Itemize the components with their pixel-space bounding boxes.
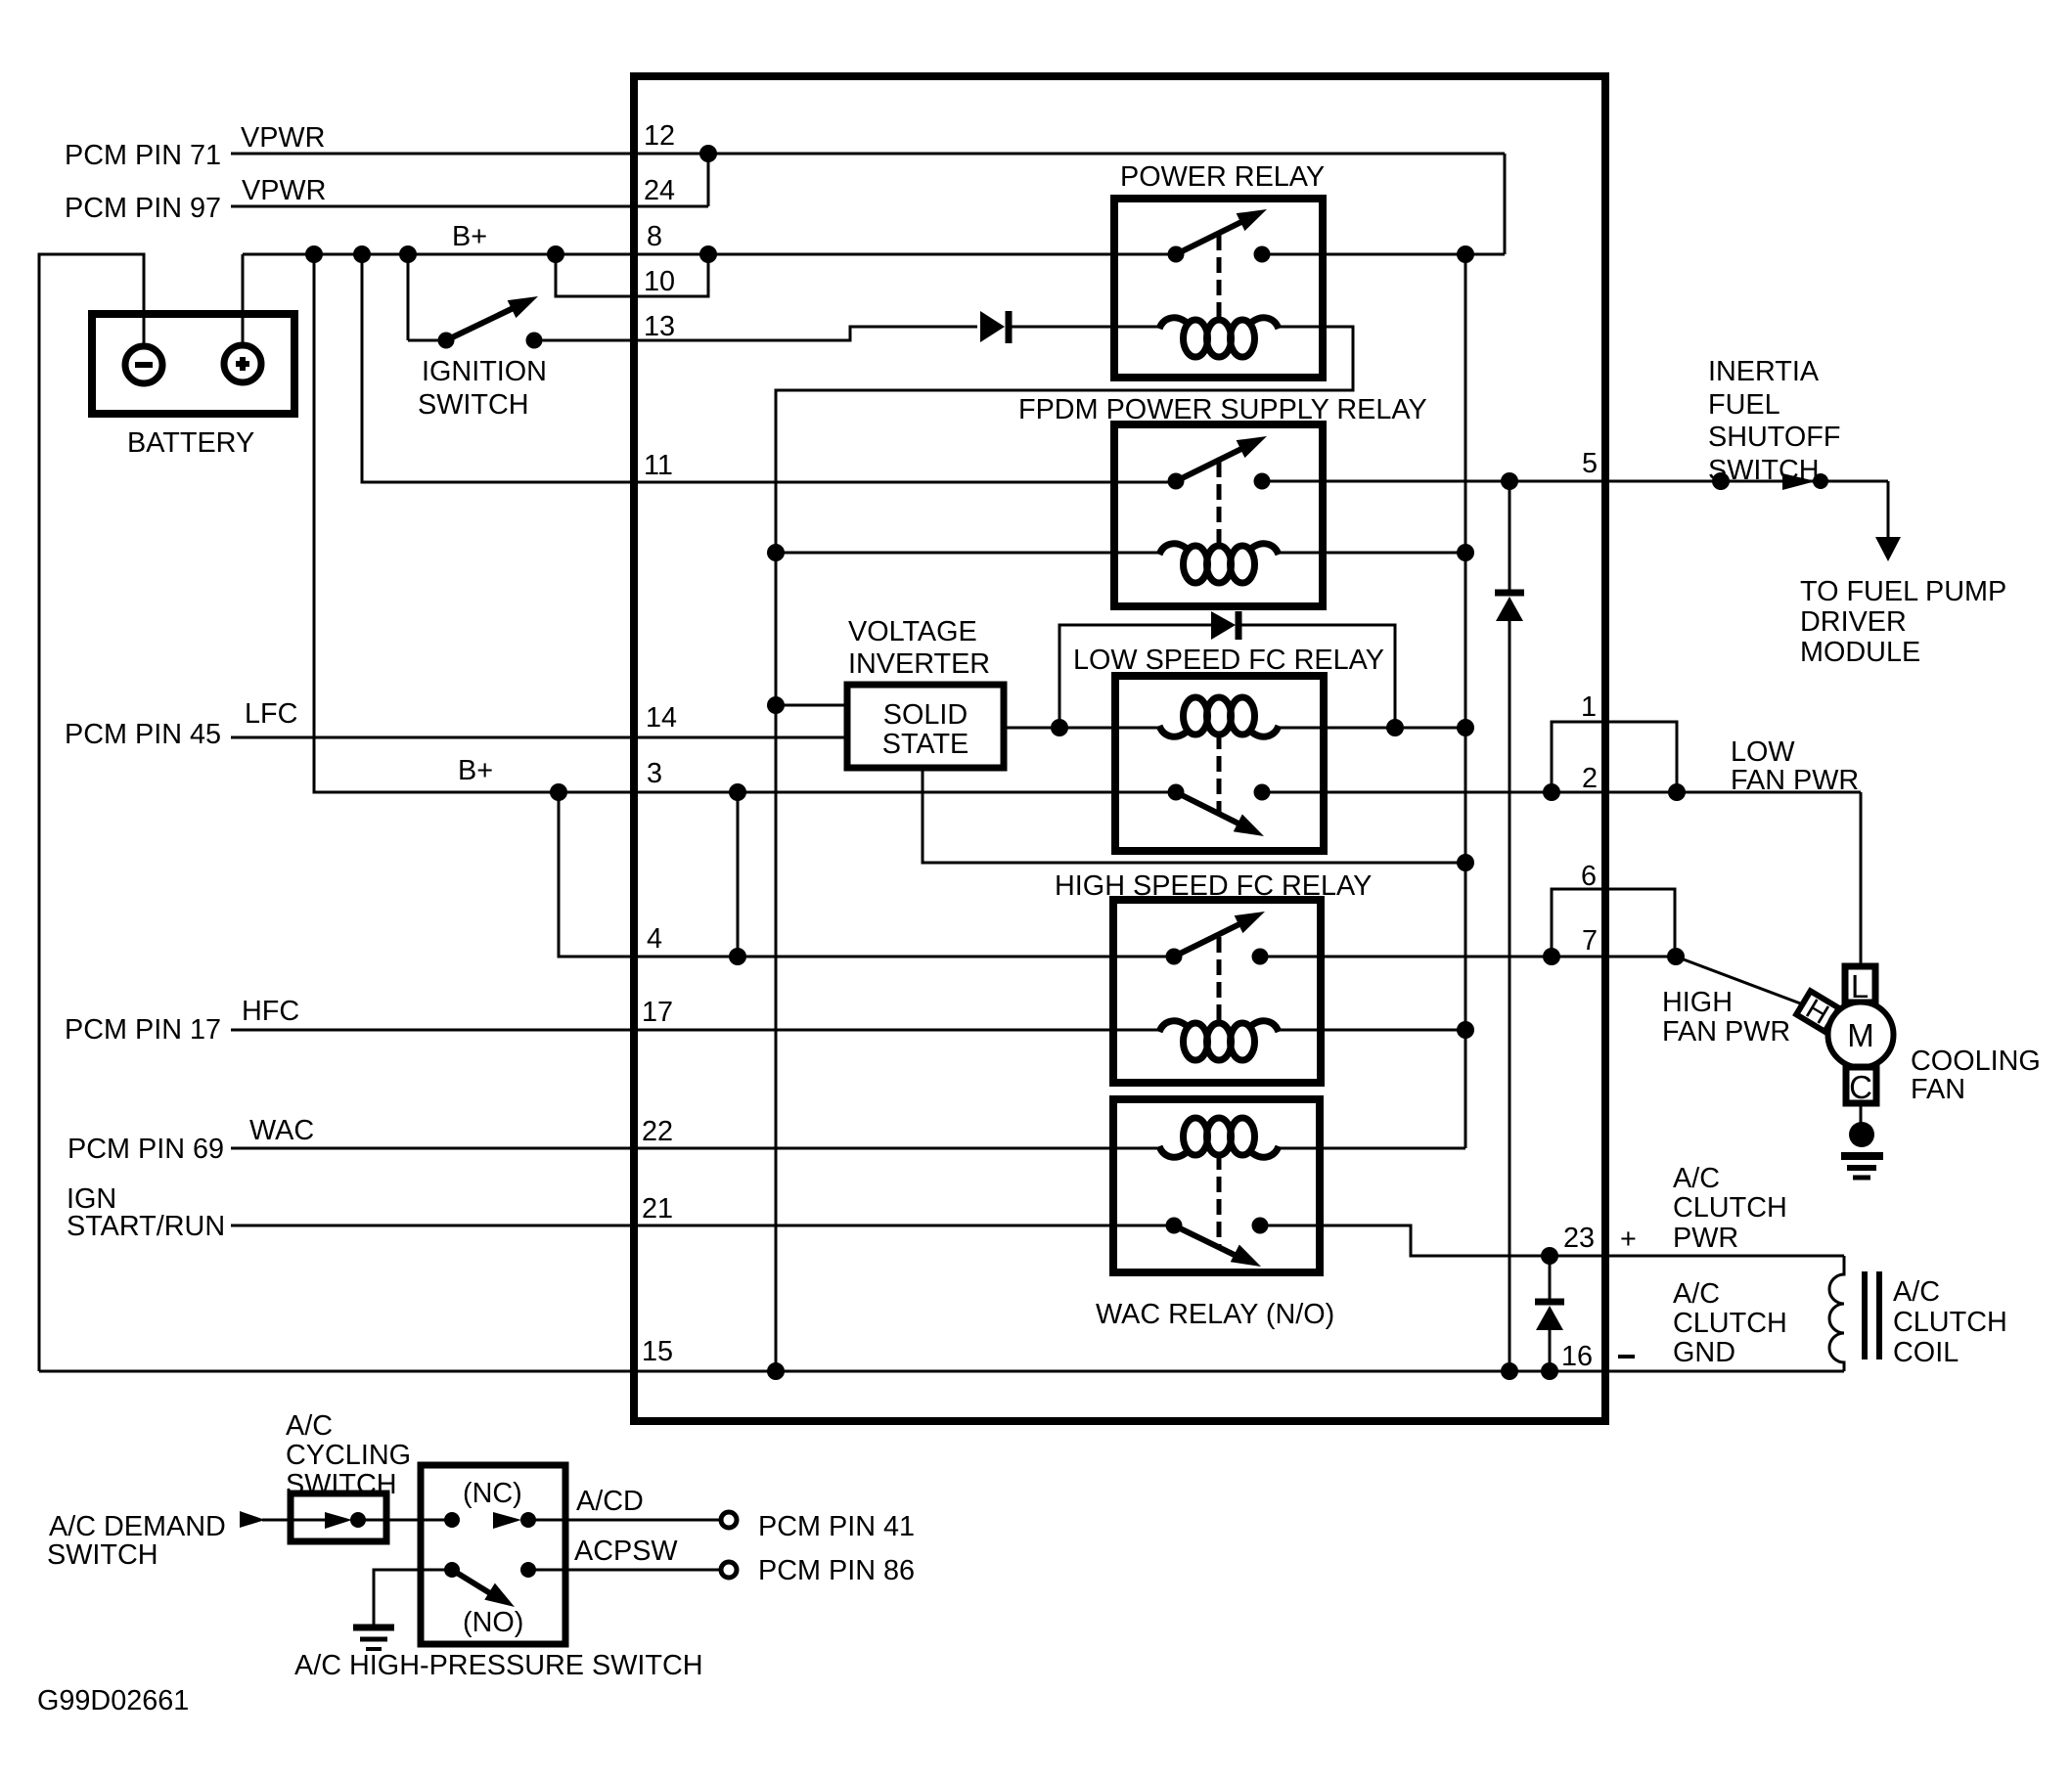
svg-text:SOLID: SOLID xyxy=(883,699,968,731)
svg-text:GND: GND xyxy=(1673,1337,1735,1368)
node bypass diode left xyxy=(1051,719,1068,736)
svg-text:SWITCH: SWITCH xyxy=(47,1539,158,1571)
svg-text:7: 7 xyxy=(1582,925,1598,957)
wire solid state output to LS coil xyxy=(1004,727,1161,730)
wire pin 3 to pin 4 jumper b xyxy=(737,792,740,957)
wire power relay coil return xyxy=(776,327,1353,1371)
wire diagonal to fan H xyxy=(1676,957,1803,1004)
svg-text:21: 21 xyxy=(642,1193,673,1225)
svg-text:5: 5 xyxy=(1582,448,1598,479)
svg-text:12: 12 xyxy=(644,120,675,152)
power relay coil xyxy=(1159,318,1186,329)
node ground bus solid state vertical xyxy=(767,1362,785,1380)
terminal ring PCM PIN 41 xyxy=(721,1512,737,1528)
WAC relay U5 xyxy=(1113,1099,1320,1272)
svg-text:A/C: A/C xyxy=(1673,1163,1720,1194)
terminal ring PCM PIN 86 xyxy=(721,1562,737,1578)
wire PCM PIN 69 WAC to pin 22 xyxy=(231,1147,1117,1150)
LS dashed actuator xyxy=(1217,734,1222,815)
wire pin 1-2 jumper xyxy=(1552,722,1677,792)
power relay contacts xyxy=(1168,246,1185,263)
svg-text:16: 16 xyxy=(1561,1341,1593,1372)
node pin3 branch a xyxy=(550,783,567,801)
node ground bus clutch diode xyxy=(1541,1362,1558,1380)
wire demand to cycling switch xyxy=(262,1519,325,1522)
A/C cycling switch S3 box xyxy=(291,1493,386,1541)
svg-text:+: + xyxy=(1620,1224,1637,1255)
FPDM arm xyxy=(1176,444,1251,481)
svg-text:WAC: WAC xyxy=(249,1115,314,1146)
svg-text:LFC: LFC xyxy=(245,698,297,730)
A/C demand arrow xyxy=(240,1511,265,1528)
node B+ branch 4 xyxy=(547,245,564,263)
cooling fan terminal L xyxy=(1845,966,1875,1002)
LS contacts xyxy=(1168,784,1185,801)
svg-text:A/C DEMAND: A/C DEMAND xyxy=(49,1511,226,1542)
svg-text:HFC: HFC xyxy=(242,996,299,1027)
NC contacts xyxy=(444,1512,460,1528)
wire pin 7 high fan pwr xyxy=(1260,956,1676,958)
node bypass diode right xyxy=(1386,719,1404,736)
low speed FC relay U3 xyxy=(1115,676,1324,851)
wire pin 15 16 ground bus xyxy=(39,1370,1844,1373)
svg-text:15: 15 xyxy=(642,1336,673,1367)
wire PCM PIN 17 HFC xyxy=(231,1029,1117,1032)
svg-text:10: 10 xyxy=(644,266,675,297)
svg-text:17: 17 xyxy=(642,997,673,1028)
ignition switch S1 arm xyxy=(446,304,521,340)
wire PCM PIN 97 VPWR to pin 24 xyxy=(231,205,708,208)
wire pin 2 low fan pwr xyxy=(1262,791,1861,794)
svg-text:IGNITION: IGNITION xyxy=(422,356,547,387)
svg-text:23: 23 xyxy=(1563,1223,1595,1254)
cooling fan terminal C xyxy=(1846,1067,1876,1103)
HS dashed actuator xyxy=(1217,937,1222,1025)
svg-text:TO FUEL PUMP: TO FUEL PUMP xyxy=(1800,576,2006,607)
node lower output to feed vertical xyxy=(1457,854,1474,871)
wire cycling to high pressure switch xyxy=(358,1519,452,1522)
svg-text:FAN PWR: FAN PWR xyxy=(1731,765,1859,796)
svg-text:2: 2 xyxy=(1582,763,1598,794)
battery BT1 xyxy=(92,314,294,414)
svg-text:PCM PIN 71: PCM PIN 71 xyxy=(65,140,221,171)
ignition switch arm arrowhead xyxy=(508,288,543,318)
wire power relay output to VPWR xyxy=(1262,253,1505,256)
power relay U1 xyxy=(1114,199,1323,378)
svg-text:INVERTER: INVERTER xyxy=(848,648,990,680)
voltage inverter solid state box U6 xyxy=(847,685,1004,768)
svg-text:3: 3 xyxy=(647,758,662,789)
WAC coil xyxy=(1117,1147,1161,1150)
diode D1 on pin 13 wire xyxy=(980,311,1005,342)
wire PCM PIN 71 VPWR to pin 12 xyxy=(231,153,1505,156)
svg-text:6: 6 xyxy=(1581,861,1597,892)
svg-text:WAC RELAY (N/O): WAC RELAY (N/O) xyxy=(1096,1299,1334,1330)
svg-text:VPWR: VPWR xyxy=(241,122,325,154)
svg-text:COOLING: COOLING xyxy=(1911,1046,2041,1077)
svg-text:PCM PIN 69: PCM PIN 69 xyxy=(68,1134,224,1165)
svg-text:A/C: A/C xyxy=(1893,1276,1940,1308)
wire pin 12-24 jumper xyxy=(707,154,710,206)
node ground bus FPDM diode xyxy=(1501,1362,1518,1380)
svg-text:CLUTCH: CLUTCH xyxy=(1673,1192,1787,1224)
svg-text:C: C xyxy=(1849,1069,1872,1105)
svg-text:VPWR: VPWR xyxy=(242,175,326,206)
svg-text:B+: B+ xyxy=(458,755,493,786)
cooling fan motor M1 xyxy=(1828,1002,1894,1068)
wire solid state lower output xyxy=(923,768,1465,863)
node B+ branch 2 xyxy=(353,245,371,263)
NO contacts xyxy=(444,1562,460,1578)
svg-text:(NO): (NO) xyxy=(463,1607,523,1638)
svg-text:BATTERY: BATTERY xyxy=(127,427,254,459)
wire pin 5 inertia feed xyxy=(1262,480,1888,483)
svg-text:SWITCH: SWITCH xyxy=(418,389,529,421)
svg-text:1: 1 xyxy=(1581,691,1597,723)
node solid state upper input xyxy=(767,696,785,714)
wire B+ down to pin 3 xyxy=(314,254,1176,792)
svg-text:PWR: PWR xyxy=(1673,1223,1738,1254)
node B+ branch 3 xyxy=(399,245,417,263)
wire B+ bus / pin 8 xyxy=(243,253,1176,256)
PCM module box xyxy=(634,76,1605,1421)
high speed FC relay U4 xyxy=(1113,900,1321,1083)
WAC contacts xyxy=(1166,1218,1183,1234)
node power relay output xyxy=(1457,245,1474,263)
svg-text:14: 14 xyxy=(646,702,677,734)
node pin7 a xyxy=(1543,948,1560,965)
HS contacts xyxy=(1166,949,1183,965)
svg-text:FAN PWR: FAN PWR xyxy=(1662,1016,1790,1047)
diode D4 A/C clutch clamp xyxy=(1549,1256,1552,1302)
svg-text:LOW: LOW xyxy=(1731,736,1795,768)
svg-text:A/C HIGH-PRESSURE SWITCH: A/C HIGH-PRESSURE SWITCH xyxy=(294,1650,703,1681)
svg-text:A/CD: A/CD xyxy=(576,1486,644,1517)
svg-text:VOLTAGE: VOLTAGE xyxy=(848,616,977,647)
svg-text:COIL: COIL xyxy=(1893,1337,1959,1368)
svg-text:22: 22 xyxy=(642,1116,673,1147)
power relay arm xyxy=(1176,217,1251,254)
svg-text:4: 4 xyxy=(647,923,662,955)
node pin 12 xyxy=(699,145,717,162)
node B+ branch 1 xyxy=(305,245,323,263)
wire pin 6-7 jumper xyxy=(1552,889,1675,957)
svg-text:A/C: A/C xyxy=(1673,1278,1720,1310)
wire WAC coil right to feed vertical xyxy=(1277,1147,1465,1150)
node pin5 diode branch xyxy=(1501,472,1518,490)
diode D2 FPDM clamp vertical xyxy=(1509,481,1511,593)
inertia fuel shutoff switch S2 xyxy=(1712,472,1730,490)
A/C high-pressure switch S4 box xyxy=(421,1465,565,1644)
label minus xyxy=(1618,1355,1635,1359)
svg-text:PCM PIN 17: PCM PIN 17 xyxy=(65,1014,221,1046)
node LS coil right xyxy=(1457,719,1474,736)
diode D3 low speed coil bypass xyxy=(1059,625,1212,728)
wire B+ down to pin 11 xyxy=(362,254,1176,482)
svg-text:FUEL: FUEL xyxy=(1708,389,1780,421)
svg-text:DRIVER: DRIVER xyxy=(1800,606,1907,638)
svg-text:8: 8 xyxy=(647,221,662,252)
wire B+ down to ignition switch xyxy=(407,254,410,340)
node HS coil right xyxy=(1457,1021,1474,1039)
svg-text:HIGH: HIGH xyxy=(1662,987,1733,1018)
ground A/C high-pressure switch xyxy=(374,1570,452,1626)
wire pin 23 AC clutch pwr xyxy=(1260,1225,1844,1256)
FPDM dashed actuator xyxy=(1217,462,1222,547)
svg-text:FAN: FAN xyxy=(1911,1074,1965,1105)
node pin4 xyxy=(729,948,746,965)
HS arm xyxy=(1174,919,1249,957)
svg-text:B+: B+ xyxy=(452,221,487,252)
svg-text:MODULE: MODULE xyxy=(1800,637,1920,668)
wire VPWR corner down xyxy=(1504,154,1507,254)
NO arm xyxy=(452,1570,498,1598)
wire IGN START/RUN to pin 21 xyxy=(231,1225,1174,1227)
svg-text:PCM PIN 97: PCM PIN 97 xyxy=(65,193,221,224)
node pin 8 jumper xyxy=(699,245,717,263)
wire to fuel pump driver module xyxy=(1887,481,1890,542)
node pin3 branch b xyxy=(729,783,746,801)
LS coil xyxy=(1159,726,1186,736)
cooling fan terminal H xyxy=(1795,990,1840,1034)
wire battery negative to left bus xyxy=(39,254,144,1371)
svg-text:POWER RELAY: POWER RELAY xyxy=(1120,161,1325,193)
wire FPDM coil feed from power relay return xyxy=(776,552,1118,555)
wire ACPSW to PCM PIN 86 xyxy=(528,1569,721,1572)
wire pin 13 from ignition switch xyxy=(534,327,977,340)
WAC arm xyxy=(1174,1225,1242,1259)
WAC dashed actuator xyxy=(1217,1154,1222,1248)
svg-text:L: L xyxy=(1851,968,1869,1004)
HS coil xyxy=(1117,1029,1161,1032)
svg-text:CYCLING: CYCLING xyxy=(286,1440,411,1471)
node pin2 b xyxy=(1668,783,1686,801)
svg-text:SHUTOFF: SHUTOFF xyxy=(1708,422,1840,453)
svg-text:CLUTCH: CLUTCH xyxy=(1673,1308,1787,1339)
node FPDM coil right xyxy=(1457,544,1474,561)
wire pin 3 to pin 4 jumper a xyxy=(559,792,1174,957)
svg-text:INERTIA: INERTIA xyxy=(1708,356,1820,387)
A/C clutch coil xyxy=(1829,1256,1844,1371)
svg-text:SWITCH: SWITCH xyxy=(1708,455,1820,486)
wire A/CD to PCM PIN 41 xyxy=(528,1519,721,1522)
wire pin 10 jumper xyxy=(556,254,708,296)
wire main feed vertical xyxy=(1464,254,1467,1148)
svg-text:24: 24 xyxy=(644,175,675,206)
node pin2 a xyxy=(1543,783,1560,801)
wire solid state upper input xyxy=(776,704,847,707)
svg-text:M: M xyxy=(1847,1017,1874,1053)
node pin7 b xyxy=(1667,948,1685,965)
svg-text:PCM PIN 41: PCM PIN 41 xyxy=(758,1511,915,1542)
svg-text:LOW SPEED FC RELAY: LOW SPEED FC RELAY xyxy=(1073,645,1384,676)
svg-text:ACPSW: ACPSW xyxy=(574,1536,678,1567)
FPDM contacts xyxy=(1168,473,1185,490)
wire battery positive up to B+ bus xyxy=(242,254,245,313)
svg-text:A/C: A/C xyxy=(286,1410,333,1442)
wire low fan pwr down to fan L xyxy=(1860,792,1863,966)
battery positive terminal xyxy=(242,314,245,346)
svg-text:13: 13 xyxy=(644,311,675,342)
svg-text:PCM PIN 45: PCM PIN 45 xyxy=(65,719,221,750)
battery negative terminal xyxy=(143,314,146,346)
FPDM coil xyxy=(1118,552,1161,555)
svg-text:STATE: STATE xyxy=(882,729,969,760)
ignition switch S1 contacts xyxy=(438,333,455,349)
LS arm xyxy=(1176,792,1246,827)
svg-text:11: 11 xyxy=(644,450,673,481)
svg-text:G99D02661: G99D02661 xyxy=(37,1685,189,1716)
svg-text:START/RUN: START/RUN xyxy=(67,1211,225,1242)
FPDM power supply relay U2 xyxy=(1114,424,1323,606)
node pin 23 diode branch xyxy=(1541,1247,1558,1265)
cycling switch arrow xyxy=(325,1512,352,1529)
svg-text:PCM PIN 86: PCM PIN 86 xyxy=(758,1555,915,1586)
power relay dashed actuator xyxy=(1217,235,1222,321)
node FPDM coil left xyxy=(767,544,785,561)
wire PCM PIN 45 LFC to pin 14 xyxy=(231,736,847,739)
ground cooling fan xyxy=(1860,1103,1863,1125)
svg-text:CLUTCH: CLUTCH xyxy=(1893,1307,2007,1338)
svg-text:(NC): (NC) xyxy=(463,1478,522,1509)
